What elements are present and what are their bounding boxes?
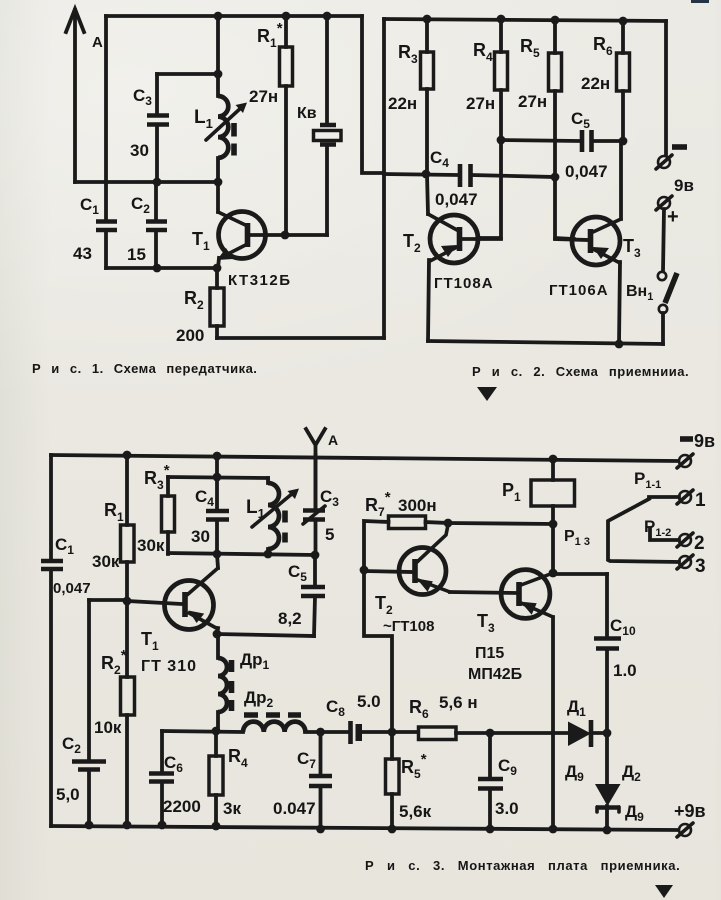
capacitor C4 (0,047) xyxy=(384,148,555,209)
node Др1 bottom / R4 xyxy=(212,727,221,736)
capacitor C2 (5,0) xyxy=(56,600,106,826)
wire top rail fig1 xyxy=(106,14,362,18)
terminal +9V xyxy=(656,196,679,228)
node T2 base xyxy=(360,566,369,575)
resistor R5* (5,6к) xyxy=(386,732,432,829)
svg-text:Др1: Др1 xyxy=(240,650,270,672)
capacitor C4 (30) xyxy=(191,477,229,554)
svg-text:L1: L1 xyxy=(246,497,265,521)
node R5* top xyxy=(388,728,397,737)
svg-text:5,6к: 5,6к xyxy=(399,802,432,821)
svg-text:3.0: 3.0 xyxy=(495,799,519,818)
resistor R7* (300н) xyxy=(364,489,448,570)
relay P1 xyxy=(502,459,575,524)
node base R1 xyxy=(281,231,290,240)
svg-text:5.0: 5.0 xyxy=(357,692,381,711)
svg-text:C9: C9 xyxy=(498,756,517,778)
svg-text:1: 1 xyxy=(695,490,706,511)
svg-text:ГТ106А: ГТ106А xyxy=(549,282,609,299)
svg-text:L1: L1 xyxy=(194,107,213,131)
svg-text:Кв: Кв xyxy=(297,105,317,122)
svg-text:9в: 9в xyxy=(694,431,715,451)
resistor R1 (30к) xyxy=(92,455,134,601)
svg-text:22н: 22н xyxy=(388,94,417,113)
resistor R6 (22н) xyxy=(581,21,630,141)
inductor L1 (variable) xyxy=(194,16,247,182)
transistor T2 ГТ108 xyxy=(364,525,450,635)
marker triangle xyxy=(477,387,497,401)
svg-text:5,0: 5,0 xyxy=(56,785,80,804)
svg-text:0.047: 0.047 xyxy=(273,799,316,818)
svg-text:R6: R6 xyxy=(593,34,613,58)
svg-text:A: A xyxy=(92,34,103,51)
wire detector rail xyxy=(162,731,607,733)
capacitor C10 (1.0) xyxy=(594,574,637,733)
node C4 left / R3 / T2 collector xyxy=(422,170,431,179)
svg-text:T2: T2 xyxy=(403,231,421,255)
svg-text:P1-1: P1-1 xyxy=(634,469,661,491)
node L1 bottom xyxy=(214,178,223,187)
svg-text:Р1-2: Р1-2 xyxy=(644,517,671,539)
svg-text:C7: C7 xyxy=(297,749,316,771)
svg-text:5: 5 xyxy=(325,525,334,544)
svg-text:30к: 30к xyxy=(137,536,165,555)
node T1 base / R1 / R2* xyxy=(123,597,132,606)
node L1 top xyxy=(214,12,223,21)
svg-text:5,6 н: 5,6 н xyxy=(439,693,478,712)
svg-text:R5: R5 xyxy=(520,36,540,60)
antenna A xyxy=(66,9,103,182)
capacitor C5 (0,047) xyxy=(501,109,623,181)
wire fig3 bottom rail xyxy=(51,826,678,830)
transistor T3 ГТ106А xyxy=(549,141,641,344)
capacitor C8 (5.0) xyxy=(326,692,381,744)
wire fig2 right rail xyxy=(664,21,668,154)
resistor R2 (200) xyxy=(176,268,224,345)
bottom rail junction dots xyxy=(85,821,94,830)
svg-text:3: 3 xyxy=(695,556,706,577)
node T1 emitter xyxy=(213,630,222,639)
svg-text:C1: C1 xyxy=(80,195,99,217)
capacitor C1 (43) xyxy=(73,195,117,263)
svg-text:C2: C2 xyxy=(62,734,81,756)
svg-text:0,047: 0,047 xyxy=(565,162,608,181)
svg-text:R4: R4 xyxy=(473,40,493,64)
svg-text:P1: P1 xyxy=(502,480,521,504)
svg-text:3к: 3к xyxy=(223,799,241,818)
svg-text:T2: T2 xyxy=(375,593,393,617)
wire collector to relay xyxy=(551,524,555,573)
svg-text:+9в: +9в xyxy=(674,801,706,821)
terminal 3 xyxy=(677,555,706,577)
terminal -9V fig3 xyxy=(677,431,715,468)
transistor T1 КТ312Б xyxy=(192,182,327,289)
relay contact P1-1 xyxy=(608,469,706,562)
svg-text:T1: T1 xyxy=(141,629,159,653)
svg-text:T3: T3 xyxy=(623,236,641,260)
node R7 right / T2 collector xyxy=(444,519,453,528)
svg-text:300н: 300н xyxy=(398,496,437,515)
svg-text:Р и с. 3. Монтажная плата: Р и с. 3. Монтажная плата приемника. xyxy=(365,858,680,873)
choke Др2 xyxy=(243,688,305,732)
node emitter rail left xyxy=(153,178,162,187)
svg-text:R3: R3 xyxy=(398,42,418,66)
wire fig2 bottom emitter rail xyxy=(428,341,663,344)
svg-text:30к: 30к xyxy=(92,552,120,571)
svg-text:Др2: Др2 xyxy=(244,688,274,710)
svg-text:30: 30 xyxy=(191,527,210,546)
svg-text:R6: R6 xyxy=(409,697,429,721)
node Д1 / C10 / Д2 xyxy=(603,729,612,738)
node C3 wire xyxy=(214,70,223,79)
svg-text:C3: C3 xyxy=(320,487,339,509)
capacitor C7 (0.047) xyxy=(273,732,332,829)
node relay bottom xyxy=(549,520,558,529)
svg-text:C5: C5 xyxy=(571,109,590,131)
capacitor C2 (15) xyxy=(127,182,167,268)
svg-text:~ГТ108: ~ГТ108 xyxy=(383,618,434,635)
inductor L1 fig3 (variable) xyxy=(246,478,299,554)
svg-text:2: 2 xyxy=(694,533,705,554)
svg-text:R2*: R2* xyxy=(101,647,127,677)
svg-text:27н: 27н xyxy=(518,92,547,111)
svg-text:10к: 10к xyxy=(94,718,122,737)
wire collector to C10 xyxy=(553,572,607,576)
resistor R2* (10к) xyxy=(94,601,135,826)
switch Вн1 xyxy=(626,209,677,344)
svg-text:43: 43 xyxy=(73,244,92,263)
wire R7 to relay xyxy=(448,523,553,524)
svg-text:0,047: 0,047 xyxy=(435,190,478,209)
svg-text:200: 200 xyxy=(176,326,204,345)
svg-text:Д9: Д9 xyxy=(625,802,644,824)
svg-text:C10: C10 xyxy=(610,616,636,638)
node C5 right / R6 / T3 collector xyxy=(619,137,628,146)
terminal +9V fig3 xyxy=(674,801,706,837)
resistor R5 (27н) xyxy=(518,20,574,239)
svg-text:ГТ 310: ГТ 310 xyxy=(141,658,197,675)
relay contact P1-2 xyxy=(644,517,705,554)
svg-text:R2: R2 xyxy=(184,288,204,312)
resistor R1* (27н) xyxy=(249,16,293,235)
wire fig3 top rail xyxy=(51,455,678,461)
node C4 right / R5 xyxy=(551,173,560,182)
wire base feedback column xyxy=(364,570,392,732)
svg-text:C6: C6 xyxy=(164,753,183,775)
svg-text:КТ312Б: КТ312Б xyxy=(228,272,292,289)
diode Д1 (Д9) xyxy=(565,697,591,784)
wire fig1 right frame xyxy=(362,16,384,173)
node C5 left / R4 xyxy=(497,136,506,145)
svg-text:R1: R1 xyxy=(104,500,124,524)
wire T2 emitter to T3 base xyxy=(450,592,517,593)
svg-text:T1: T1 xyxy=(192,229,210,253)
wire left column fig1 xyxy=(104,16,108,268)
svg-text:A: A xyxy=(328,432,338,448)
svg-text:+: + xyxy=(667,206,679,228)
svg-text:30: 30 xyxy=(130,141,149,160)
svg-text:T3: T3 xyxy=(477,611,495,635)
svg-text:ГТ108А: ГТ108А xyxy=(434,275,494,292)
svg-text:Р1 3: Р1 3 xyxy=(564,528,590,548)
quartz crystal Кв xyxy=(297,16,341,235)
transistor T2 ГТ108А xyxy=(403,174,501,341)
svg-text:C2: C2 xyxy=(131,194,150,216)
node T3 collector xyxy=(549,569,558,578)
svg-text:Д1: Д1 xyxy=(567,697,586,719)
wire fig3 left column xyxy=(49,455,53,826)
svg-text:27н: 27н xyxy=(466,94,495,113)
svg-text:R4: R4 xyxy=(228,746,248,770)
svg-text:22н: 22н xyxy=(581,74,610,93)
wire emitter to C5 xyxy=(217,634,314,636)
svg-text:R3*: R3* xyxy=(144,462,170,492)
transistor T3 П15 МП42Б xyxy=(468,570,553,829)
diode Д2 (Д9) xyxy=(595,733,644,830)
svg-text:9в: 9в xyxy=(674,176,694,195)
page corner mark xyxy=(691,0,709,3)
svg-text:2200: 2200 xyxy=(163,797,201,816)
capacitor C1 (0,047) xyxy=(41,535,91,597)
wire antenna to emitter rail xyxy=(75,180,218,184)
svg-text:C3: C3 xyxy=(133,86,152,108)
wire tank top xyxy=(168,477,268,478)
marker triangle 2 xyxy=(655,885,673,898)
svg-text:МП42Б: МП42Б xyxy=(468,666,522,683)
svg-text:Р и с. 2. Схема приемнииа.: Р и с. 2. Схема приемнииа. xyxy=(472,364,689,379)
svg-text:П15: П15 xyxy=(475,645,504,662)
resistor R6 horizontal (5,6н) xyxy=(409,693,478,740)
transistor T1 ГТ310 xyxy=(128,554,218,675)
svg-text:Вн1: Вн1 xyxy=(626,283,653,303)
svg-text:C4: C4 xyxy=(195,487,214,509)
svg-text:C4: C4 xyxy=(430,148,449,170)
capacitor C9 (3.0) xyxy=(478,733,519,829)
svg-text:1.0: 1.0 xyxy=(613,661,637,680)
capacitor C3 trimmer (5) xyxy=(303,455,339,555)
capacitor C5 (8,2) xyxy=(278,555,325,636)
wire base to C2 xyxy=(89,598,128,602)
wire fig1 bottom return xyxy=(217,336,384,340)
wire C3 top link xyxy=(157,72,218,76)
terminal -9V xyxy=(656,147,694,195)
svg-text:Р и с. 1. Схема передатчика.: Р и с. 1. Схема передатчика. xyxy=(32,361,257,376)
svg-text:27н: 27н xyxy=(249,87,278,106)
wire tank bottom xyxy=(168,553,315,555)
resistor R3* (30к) xyxy=(137,462,175,555)
svg-text:C5: C5 xyxy=(288,562,307,584)
resistor R4 (3к) xyxy=(209,731,248,826)
svg-text:C8: C8 xyxy=(326,697,345,719)
svg-text:Д2: Д2 xyxy=(622,762,641,784)
antenna A fig3 xyxy=(306,429,338,509)
svg-text:0,047: 0,047 xyxy=(53,580,91,597)
capacitor C6 (2200) xyxy=(149,731,201,825)
wire emitter bottom rail xyxy=(106,266,217,270)
svg-text:Д9: Д9 xyxy=(565,762,584,784)
svg-text:R5*: R5* xyxy=(401,751,427,781)
choke Др1 xyxy=(218,634,270,731)
wire fig2 left frame xyxy=(382,19,386,338)
wire tank to rail xyxy=(215,456,219,477)
svg-text:8,2: 8,2 xyxy=(278,609,302,628)
svg-text:C1: C1 xyxy=(55,535,74,557)
resistor R3 (22н) xyxy=(388,19,434,175)
capacitor C3 (30) xyxy=(130,74,169,182)
resistor R4 (27н) xyxy=(466,19,508,238)
wire fig2 top rail xyxy=(384,19,666,21)
svg-text:15: 15 xyxy=(127,245,146,264)
